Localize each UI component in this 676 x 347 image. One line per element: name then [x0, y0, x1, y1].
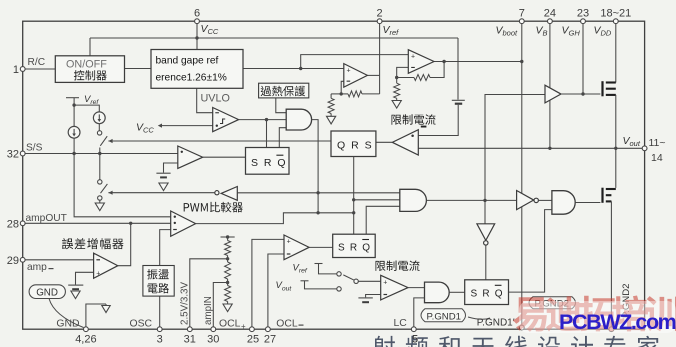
wire SEL to OCLm plus — [358, 280, 380, 282]
block band gap reference — [151, 50, 243, 89]
svg-text:band gape ref: band gape ref — [156, 56, 219, 67]
block thermal protection label — [259, 83, 309, 98]
svg-text:11~: 11~ — [649, 137, 666, 149]
wire G2 bottom input — [366, 206, 400, 234]
node bandgap tee — [299, 67, 302, 70]
wire pin25 to OCLp plus — [252, 239, 284, 329]
ground SS comp bar — [156, 172, 170, 174]
wire SRQ1 Qbar to G1 — [279, 128, 286, 148]
svg-text:P.GND1: P.GND1 — [427, 311, 461, 322]
svg-text:25: 25 — [247, 334, 259, 346]
resistor chain R1 — [225, 241, 231, 256]
wire U2 fb to node — [397, 77, 414, 79]
node QRS col pwm — [352, 211, 355, 214]
svg-text:+: + — [383, 279, 387, 286]
svg-text:28: 28 — [7, 219, 19, 231]
node UVLO out tee — [265, 118, 268, 121]
svg-text:30: 30 — [207, 334, 219, 346]
svg-text:ampIN: ampIN — [203, 296, 214, 325]
wire pin6 stem — [196, 21, 198, 49]
wire inverter to S2 arrow — [108, 192, 214, 194]
node chain tap2 — [227, 279, 229, 283]
switch S1 arm — [100, 136, 107, 146]
svg-text:S R Q: S R Q — [338, 243, 371, 254]
node G2 out tee — [483, 199, 486, 202]
transistor M2 low-side MOSFET — [601, 188, 603, 203]
wire UVLO output — [239, 119, 287, 121]
node SS css junction — [72, 152, 75, 155]
wire PWM minus to OSC pin — [160, 230, 171, 330]
comparator PWM — [171, 211, 196, 236]
wire U3 output to QRS — [376, 141, 392, 143]
switch S1 contact — [97, 131, 101, 135]
switch SEL arm — [343, 275, 354, 280]
wire pin2 Vref stem — [379, 21, 381, 75]
comparator SS — [178, 146, 203, 168]
wire U1 output to pin2 — [367, 74, 379, 76]
node U2 feedback tap — [442, 60, 445, 63]
node ampOUT error junction — [129, 222, 132, 225]
wire M2 source to PGND2 — [610, 201, 612, 329]
pin 25 — [250, 327, 255, 332]
svg-text:23: 23 — [577, 8, 589, 20]
wire SS to S2 — [99, 154, 101, 180]
wire pin31 tap — [190, 259, 228, 329]
watermark white panel — [519, 301, 676, 333]
wire U2 output line — [434, 61, 522, 63]
svg-text:+: + — [411, 54, 415, 61]
wire M1 source to Vout — [615, 95, 617, 148]
inverter INV3 down-pointing — [484, 200, 486, 223]
wire OCLm out to G4 — [408, 287, 425, 289]
watermark bottom slogan — [373, 336, 660, 347]
svg-text:4,26: 4,26 — [75, 334, 96, 346]
node VCC-pin6 junction — [195, 36, 198, 39]
wire U2 inv input — [397, 67, 409, 77]
switch S2 contact bottom — [98, 196, 102, 200]
pin 3 — [157, 327, 162, 332]
current source I1 — [93, 112, 105, 124]
resistor chain R2 — [227, 259, 229, 262]
svg-text:6: 6 — [194, 8, 200, 20]
pin 28 — [20, 221, 25, 226]
wire I2 to SS rail — [73, 138, 75, 153]
svg-text:S R Q: S R Q — [251, 157, 287, 169]
switch S2 arm — [101, 184, 108, 193]
wire bandgap to UVLO — [197, 88, 213, 112]
pin 27 — [266, 327, 271, 332]
svg-text:UVLO: UVLO — [201, 93, 230, 105]
op-amp U1 Vref buffer — [344, 64, 368, 88]
wire buffer out to gate — [561, 93, 600, 95]
pin 7 — [519, 19, 524, 24]
svg-text:5: 5 — [412, 334, 418, 346]
wire pin1 R/C — [23, 68, 56, 70]
comparator OCL- current limit — [381, 275, 408, 300]
svg-text:Q R S: Q R S — [337, 140, 373, 152]
wire SRQ3 to G3 — [509, 210, 552, 293]
wire chain — [227, 256, 229, 259]
pin 23 — [581, 19, 586, 24]
label current limit 2 — [376, 260, 420, 271]
label PWM comparator — [184, 202, 243, 213]
wire Vref T — [315, 263, 323, 265]
wire Vref to I1 — [74, 105, 99, 112]
resistor U2 divider — [394, 83, 400, 98]
wire OCLm minus ref — [366, 295, 381, 298]
switch SEL contact Vref — [337, 272, 341, 276]
node VGH-gate junction — [581, 92, 584, 95]
svg-text:32: 32 — [7, 149, 19, 161]
svg-text:OCL: OCL — [276, 319, 298, 330]
wire INV1 input rail — [237, 192, 399, 194]
wire pin18-21 VDD stem — [615, 21, 617, 82]
pin 5 — [411, 327, 416, 332]
svg-text:18~21: 18~21 — [600, 8, 631, 20]
wire U1 fb left — [341, 93, 348, 95]
wire SS to PWM plus — [74, 154, 171, 217]
svg-text:+: + — [347, 67, 351, 74]
flip-flop SRQ2 — [333, 234, 376, 257]
buffer driver high side — [545, 85, 561, 103]
wire pin27 to OCLp minus — [268, 254, 284, 329]
wire I1 to switch S1 — [98, 124, 100, 131]
svg-text:24: 24 — [544, 8, 556, 20]
wire error plus — [76, 272, 94, 284]
svg-text:1: 1 — [13, 64, 19, 76]
callout P.GND1 oval — [421, 309, 466, 322]
wire VCC rail — [90, 37, 458, 39]
wire battery column — [457, 38, 459, 100]
pin 32 — [20, 151, 25, 156]
wire ampOUT rail — [23, 222, 171, 224]
resistor U1 divider — [328, 98, 334, 113]
svg-text:2.5V/3.3V: 2.5V/3.3V — [180, 282, 191, 325]
pin 30 — [211, 327, 216, 332]
pin 4-26 — [84, 327, 89, 332]
svg-text:R/C: R/C — [28, 57, 46, 68]
svg-text:ON/OFF: ON/OFF — [66, 59, 107, 71]
wire PWM output jog — [196, 213, 354, 224]
wire U1 divider lower — [331, 93, 341, 95]
inverter INV1 left-pointing — [221, 187, 237, 201]
wire G4 out to SRQ3 — [449, 291, 465, 293]
wire QRS discharge rail — [108, 140, 331, 142]
wire QRS to SRQ2 column — [353, 157, 355, 235]
ground gnd-pin arrow — [105, 304, 107, 306]
svg-text:ampOUT: ampOUT — [26, 213, 67, 224]
wire SS comp minus — [164, 163, 178, 173]
node chain tap1 — [226, 257, 229, 260]
wire U1 divider tail — [330, 114, 332, 117]
ground U2 divider arrow — [396, 98, 398, 100]
ground S2 arrow — [95, 203, 104, 211]
pin 31 — [187, 327, 192, 332]
and-gate G2 — [400, 189, 427, 211]
label error amplifier — [62, 238, 123, 249]
wire G1 output — [312, 120, 319, 213]
wire Vout T — [301, 280, 309, 282]
inverter INV2 — [517, 191, 534, 210]
pin 11-14 — [642, 146, 647, 151]
svg-text:OSC: OSC — [130, 319, 153, 330]
wire bandgap upper branch — [301, 55, 409, 69]
wire driver column — [485, 95, 545, 201]
svg-text:S R Q: S R Q — [471, 289, 504, 300]
ground U1 divider arrow — [327, 116, 336, 124]
comparator UVLO — [213, 108, 239, 132]
pin 24 — [548, 19, 553, 24]
ground SS comp arrow — [159, 183, 168, 191]
wire U1 inv input — [341, 81, 344, 94]
label Vref small T — [66, 97, 79, 99]
wire Vboot stem full height — [521, 21, 523, 327]
wire INV2 out to G3 — [538, 199, 552, 201]
wire G2 output — [426, 199, 516, 201]
svg-text:LC: LC — [394, 318, 408, 329]
block ON/OFF controller — [55, 56, 124, 83]
node VB-Vout junction — [548, 147, 551, 150]
svg-text:14: 14 — [651, 152, 663, 164]
flip-flop SRQ1 — [246, 148, 290, 175]
wire thermal box to G1 — [276, 98, 286, 113]
wire pin29 to error minus — [23, 259, 94, 261]
resistor U2 feedback — [414, 75, 430, 81]
node Vref tee — [72, 103, 75, 106]
battery internal ref — [452, 99, 465, 101]
current source I2 — [68, 126, 80, 138]
svg-text:GND: GND — [36, 287, 58, 298]
wire UVLO to SRQ1 S — [266, 120, 268, 148]
svg-text:2: 2 — [377, 8, 383, 20]
block oscillator label — [143, 266, 174, 297]
svg-text:+: + — [241, 322, 246, 331]
watermark red characters — [513, 296, 676, 332]
wire SS comp out to SRQ1 — [203, 156, 246, 158]
wire G3 out to gate — [575, 202, 600, 204]
svg-text:amp: amp — [27, 262, 47, 273]
and-gate G1 — [286, 109, 311, 130]
divider chain top T — [221, 236, 235, 238]
switch S2 contact top — [98, 180, 102, 184]
callout GND oval — [29, 285, 65, 299]
wire S1 lower — [99, 148, 101, 154]
wire INV3 to SRQ3 — [485, 245, 487, 280]
pin 2 — [377, 19, 382, 24]
label current limit 1 — [392, 114, 436, 125]
wire pin23 VGH stem — [582, 21, 584, 94]
wire pin24 VB stem — [549, 21, 551, 148]
node G1 col pwm tee — [316, 211, 319, 214]
node Vout-MOSFET junction — [614, 147, 617, 150]
svg-text:erence1.26±1%: erence1.26±1% — [156, 73, 227, 84]
wire LC pin to G4 — [414, 298, 425, 329]
wire gnd pin up — [86, 304, 106, 329]
wire G2 mid input — [354, 199, 400, 201]
svg-text:P.GND1′: P.GND1′ — [477, 317, 515, 328]
op-amp error amplifier — [94, 253, 118, 278]
wire U1 feedback column — [379, 75, 381, 94]
wire U2 feedback down — [430, 62, 444, 78]
node SS switch junction — [98, 152, 101, 155]
wire U1 fb right — [362, 93, 380, 95]
svg-text:27: 27 — [264, 334, 276, 346]
wire SS rail — [23, 153, 178, 155]
pin PGND1 — [519, 325, 524, 330]
svg-text:S/S: S/S — [26, 143, 43, 154]
resistor chain R3 — [227, 283, 229, 286]
wire U2 divider — [396, 78, 398, 84]
svg-text:29: 29 — [7, 255, 19, 267]
pin PGND2 — [609, 327, 614, 332]
svg-text:3: 3 — [157, 334, 163, 346]
svg-text:OCL: OCL — [219, 319, 241, 330]
svg-text:+: + — [96, 271, 100, 278]
wire bandgap output — [243, 68, 344, 70]
wire S2 to gnd — [99, 200, 101, 203]
svg-text:GND: GND — [56, 319, 79, 330]
resistor U1 feedback — [348, 91, 362, 97]
node U2 fb node — [395, 76, 398, 79]
svg-text:+: + — [287, 238, 291, 245]
node QRS col mid in — [352, 198, 355, 201]
wire VCC arrow into UVLO plus — [162, 125, 213, 127]
flip-flop SRQ3 — [465, 280, 509, 305]
and-gate G4 — [425, 282, 450, 303]
pin 6 — [195, 19, 200, 24]
pin 29 — [20, 257, 25, 262]
wire error output — [118, 223, 131, 265]
flip-flop QRS — [331, 131, 376, 157]
op-amp U2 regulator — [408, 50, 434, 74]
pin 1 — [20, 67, 25, 72]
wire Vout sense rail — [418, 147, 644, 149]
wire M2 drain from Vout — [615, 148, 617, 188]
callout P.GND2 oval — [529, 297, 576, 309]
wire battery to comparator — [418, 105, 458, 136]
node U2 out to Vboot — [520, 60, 523, 63]
ground error arrow — [71, 291, 80, 299]
node U1 fb node — [340, 92, 343, 95]
switch SEL common — [354, 279, 358, 283]
and-gate G3 low side — [552, 191, 575, 215]
switch SEL contact Vout — [337, 287, 341, 291]
pin 18-21 — [613, 19, 618, 24]
ground OCLm bar — [358, 297, 372, 299]
node G1 col inverter tee — [316, 191, 319, 194]
wire ON/OFF box top stem — [89, 38, 91, 56]
svg-text:7: 7 — [519, 8, 525, 20]
wire pin30 tap — [213, 283, 227, 330]
comparator U3 left-pointing — [392, 130, 418, 155]
svg-text:31: 31 — [184, 334, 196, 346]
ground chain arrow — [227, 302, 229, 305]
wire ON/OFF to bandgap — [125, 68, 152, 70]
transistor M1 high-side MOSFET — [601, 81, 603, 96]
ground error bar — [68, 284, 83, 286]
svg-text:PCBWZ.com: PCBWZ.com — [559, 310, 676, 334]
wire OCLp out to SRQ2 — [309, 246, 333, 248]
